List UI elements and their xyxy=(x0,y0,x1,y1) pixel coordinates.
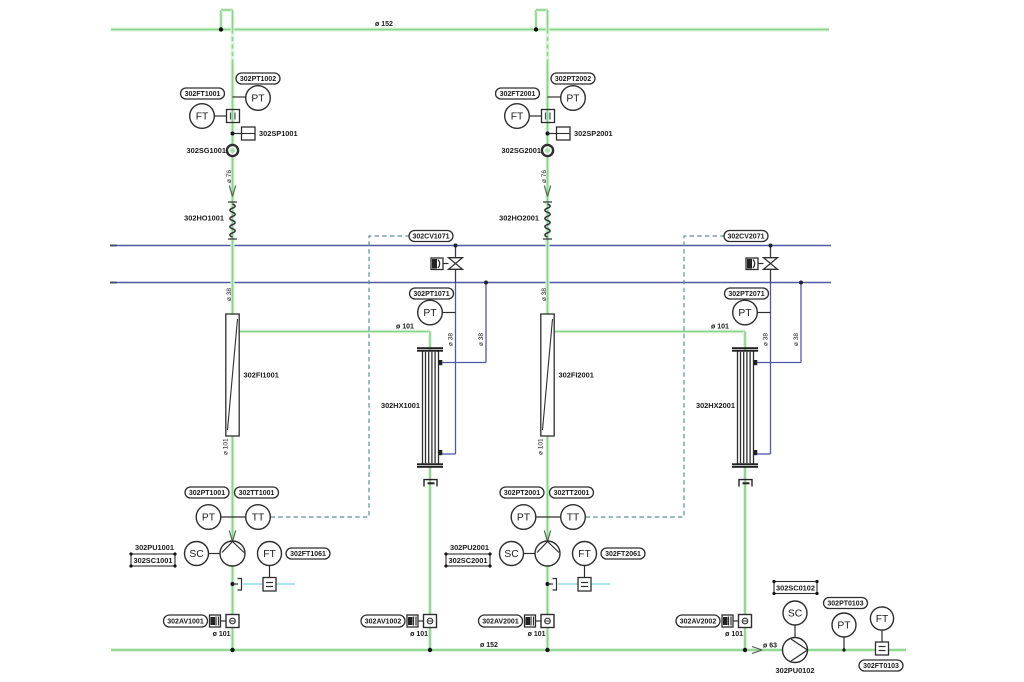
svg-text:302PT1001: 302PT1001 xyxy=(189,490,225,497)
svg-text:302HX1001: 302HX1001 xyxy=(381,401,420,410)
svg-text:302PU1001: 302PU1001 xyxy=(135,543,174,552)
svg-text:302PT2071: 302PT2071 xyxy=(728,291,764,298)
svg-text:302PT2002: 302PT2002 xyxy=(555,76,591,83)
svg-text:302AV2002: 302AV2002 xyxy=(680,618,717,625)
svg-text:302PT1071: 302PT1071 xyxy=(413,291,449,298)
svg-text:302FT0103: 302FT0103 xyxy=(863,663,899,670)
svg-text:302CV1071: 302CV1071 xyxy=(413,233,450,240)
svg-text:ø 38: ø 38 xyxy=(448,333,455,346)
svg-text:ø 101: ø 101 xyxy=(410,631,428,638)
svg-text:302SG2001: 302SG2001 xyxy=(502,146,541,155)
svg-text:302SC1001: 302SC1001 xyxy=(133,556,172,565)
svg-text:PT: PT xyxy=(837,621,851,632)
svg-text:302FT2001: 302FT2001 xyxy=(500,91,536,98)
svg-text:302AV2001: 302AV2001 xyxy=(482,618,519,625)
svg-text:ø 101: ø 101 xyxy=(711,324,729,331)
svg-text:ø 38: ø 38 xyxy=(541,288,548,301)
svg-text:302PT0103: 302PT0103 xyxy=(827,600,863,607)
svg-text:302FI1001: 302FI1001 xyxy=(244,371,279,380)
svg-text:302CV2071: 302CV2071 xyxy=(728,233,765,240)
svg-text:ø 101: ø 101 xyxy=(396,324,414,331)
svg-text:ø 38: ø 38 xyxy=(226,288,233,301)
svg-text:ø 101: ø 101 xyxy=(538,438,545,455)
svg-text:ø 38: ø 38 xyxy=(763,333,770,346)
svg-text:ø 63: ø 63 xyxy=(763,643,777,650)
svg-text:302PT2001: 302PT2001 xyxy=(504,490,540,497)
svg-text:302FI2001: 302FI2001 xyxy=(559,371,594,380)
svg-text:PT: PT xyxy=(566,94,580,105)
svg-text:302SC0102: 302SC0102 xyxy=(776,584,815,593)
svg-text:ø 76: ø 76 xyxy=(541,170,548,183)
svg-text:302SP1001: 302SP1001 xyxy=(259,129,298,138)
svg-text:PT: PT xyxy=(423,308,437,319)
svg-text:FT: FT xyxy=(511,112,524,123)
svg-text:302AV1002: 302AV1002 xyxy=(365,618,402,625)
svg-text:ø 101: ø 101 xyxy=(528,631,546,638)
svg-text:FT: FT xyxy=(196,112,209,123)
svg-text:ø 76: ø 76 xyxy=(226,170,233,183)
svg-text:302HO1001: 302HO1001 xyxy=(184,214,224,223)
svg-text:302AV1001: 302AV1001 xyxy=(167,618,204,625)
svg-text:FT: FT xyxy=(578,549,591,560)
svg-text:SC: SC xyxy=(189,549,204,560)
svg-text:ø 101: ø 101 xyxy=(213,631,231,638)
svg-text:302PT1002: 302PT1002 xyxy=(240,76,276,83)
svg-text:302SC2001: 302SC2001 xyxy=(448,556,487,565)
svg-text:ø 38: ø 38 xyxy=(478,333,485,346)
svg-text:PT: PT xyxy=(202,513,216,524)
svg-text:302SG1001: 302SG1001 xyxy=(187,146,226,155)
svg-text:302SP2001: 302SP2001 xyxy=(574,129,613,138)
svg-text:302FT1061: 302FT1061 xyxy=(290,551,326,558)
svg-text:PT: PT xyxy=(738,308,752,319)
svg-text:SC: SC xyxy=(788,609,803,620)
svg-text:PT: PT xyxy=(251,94,265,105)
svg-text:FT: FT xyxy=(263,549,276,560)
svg-text:FT: FT xyxy=(876,614,889,625)
svg-text:302FT1001: 302FT1001 xyxy=(185,91,221,98)
svg-text:ø 101: ø 101 xyxy=(223,438,230,455)
svg-text:PT: PT xyxy=(517,513,531,524)
svg-text:302PU2001: 302PU2001 xyxy=(450,543,489,552)
svg-text:ø 152: ø 152 xyxy=(375,21,393,28)
svg-text:302TT2001: 302TT2001 xyxy=(554,490,590,497)
svg-text:ø 101: ø 101 xyxy=(725,631,743,638)
svg-text:302HX2001: 302HX2001 xyxy=(696,401,735,410)
svg-text:ø 38: ø 38 xyxy=(793,333,800,346)
svg-text:ø 152: ø 152 xyxy=(480,642,498,649)
svg-text:302HO2001: 302HO2001 xyxy=(499,214,539,223)
svg-text:302PU0102: 302PU0102 xyxy=(775,666,814,675)
svg-text:TT: TT xyxy=(252,513,265,524)
svg-text:302TT1001: 302TT1001 xyxy=(239,490,275,497)
svg-text:302FT2061: 302FT2061 xyxy=(605,551,641,558)
svg-text:TT: TT xyxy=(567,513,580,524)
svg-text:SC: SC xyxy=(504,549,519,560)
